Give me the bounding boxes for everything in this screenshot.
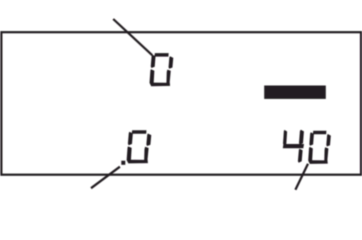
top digit 0 <box>150 53 174 86</box>
bottom digit 0 (of .0) <box>127 130 152 163</box>
decimal point <box>121 161 125 165</box>
leader line to top digit <box>113 19 152 55</box>
black indicator bar <box>264 86 326 99</box>
leader line to decimal point <box>91 167 120 189</box>
leader line to 40 <box>295 164 308 190</box>
digit 4 (of 40) <box>283 130 304 163</box>
digit 0 (of 40) <box>308 131 331 164</box>
display outline box <box>1 32 361 175</box>
